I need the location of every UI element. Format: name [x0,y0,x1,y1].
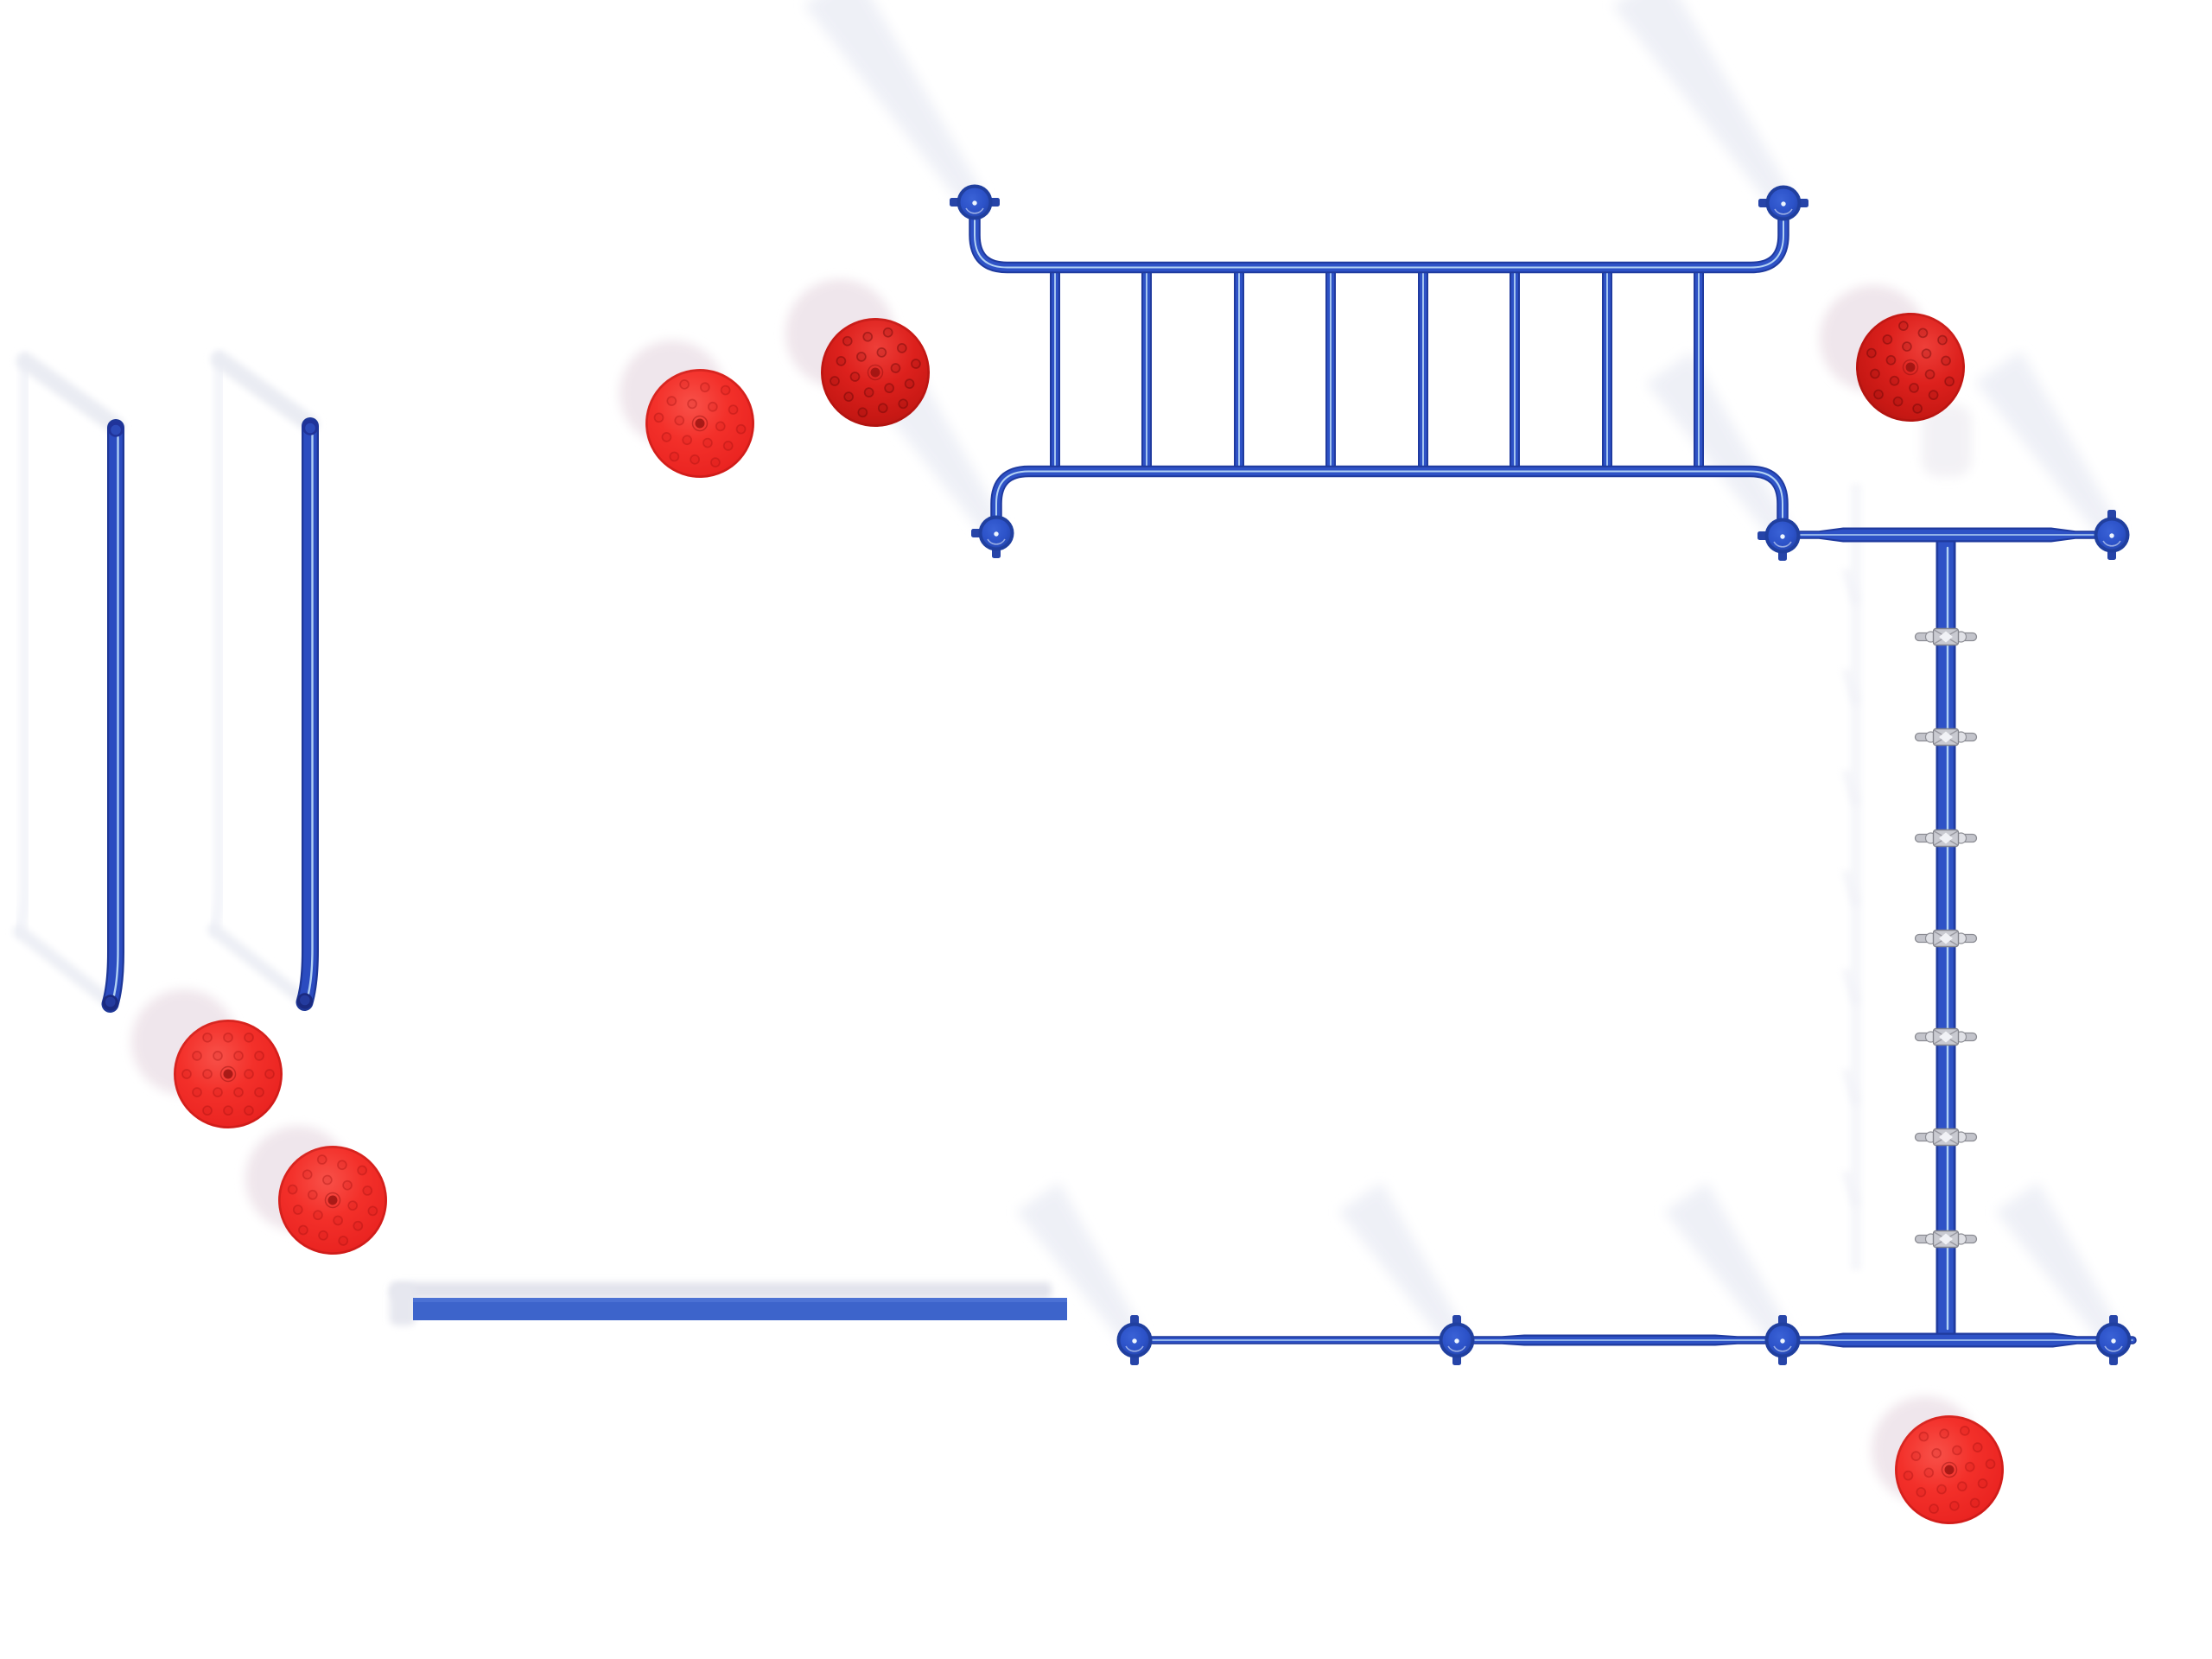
monkey-bar post P3 (bottom-left) [971,529,982,537]
hand grip G3 on climbing pole [1916,835,1932,842]
shadow of bottom rail post P8 [1664,1182,1790,1344]
shadow of monkey-bar post P2 (top-right) [1612,0,1792,208]
monkey bar rung 6 [1510,268,1520,472]
bottom rail post P8 [1778,1315,1787,1325]
monkey bar rung 4 [1325,268,1336,472]
shadow of monkey-bar post P1 (top-left) [804,0,983,207]
stepper pod SP2 (shaded) [810,308,939,436]
shadow of monkey-bar post P3 (bottom-left) [876,372,1005,537]
shadow connector of arch H2 top leg [219,359,310,424]
stepper pod SP3 (shaded) [1840,297,1980,436]
shadow of horizontal bar H2 (right arch, offset ghost line) [214,358,220,930]
stepper pod SP4 [174,1020,283,1128]
shadow streak of grip at y=737 [1841,567,1861,606]
monkey bar rung 8 [1694,268,1704,472]
shadow of stepper pod SP1 [620,340,725,446]
bottom rail segment R1 (post P6 to P7) [1135,1336,1457,1344]
shadow of balance beam B1 [391,1282,1052,1299]
shadow streak of grip at y=1316 [1841,1067,1861,1106]
bottom rail stub right of post P9 [2113,1336,2133,1344]
hand grip G7 on climbing pole [1916,1236,1932,1243]
shadow of stepper pod SP2 [785,279,894,388]
bottom rail post P7 [1452,1315,1461,1325]
shadow of climbing pole V1 (offset ghost line) [1851,484,1861,1270]
stepper pod SP1 [639,362,761,485]
bottom rail post P9 [2109,1315,2118,1325]
top crossbar of climbing pole frame [1783,528,2112,543]
shadow of bottom rail post P9 [1995,1182,2121,1344]
hand grip G2 on climbing pole [1916,734,1932,741]
shadow connector of arch H2 bottom leg [214,930,305,1001]
shadow of bottom rail post P6 [1016,1182,1142,1344]
horizontal bar H2 (right arch) [305,426,311,1002]
monkey bar rung 7 [1602,268,1612,472]
shadow of stepper pod SP6 [1872,1396,1979,1503]
hand grip G4 on climbing pole [1916,935,1932,943]
shadow streak of grip at y=1434 [1841,1169,1861,1208]
climbing pole V1 [1936,541,1956,1334]
stepper pod SP6 [1888,1408,2011,1531]
shadow streak of grip at y=970 [1841,768,1861,807]
horizontal bar H1 (left arch) [111,428,117,1004]
balance beam B1 [413,1298,1067,1320]
shadow streak of grip at y=1200 [1841,967,1861,1006]
shadow streak of grip at y=853 [1841,667,1861,706]
bottom rail post P6 [1130,1315,1139,1325]
shadow of monkey-bar post P4 (bottom-right) [1646,352,1791,540]
shadow of bottom rail post P7 [1338,1182,1465,1344]
shadow connector of arch H1 top leg [25,361,116,426]
soft shade below pod SP3 [1922,404,1972,477]
shadow of stepper pod SP4 [131,989,237,1095]
monkey bar rung 2 [1141,268,1152,472]
bottom rail segment R3 (post P8 to P9) [1783,1333,2113,1348]
stepper pod SP5 [266,1134,399,1267]
shadow of top crossbar post P5 (far right) [1975,351,2120,539]
monkey bar rung 1 [1050,268,1060,472]
monkey bar rung 3 [1234,268,1244,472]
hand grip G5 on climbing pole [1916,1033,1932,1041]
crossbar post P5 (far right) [2107,510,2116,520]
monkey-bar post P2 (top-right) [1758,199,1769,207]
hand grip G1 on climbing pole [1916,633,1932,641]
monkey-bar post P4 / crossbar post (bottom-right of ladder) [1758,531,1768,540]
hand grip G6 on climbing pole [1916,1134,1932,1141]
bottom rail segment R2 (post P7 to P8) [1457,1335,1783,1346]
monkey bar top rail with end elbows [975,216,1783,268]
monkey-bar post P1 (top-left) [950,198,960,207]
shadow of stepper pod SP3 [1820,285,1927,392]
shadow streak of grip at y=1086 [1841,868,1861,907]
monkey bar bottom rail with end elbows [996,472,1783,520]
shadow of horizontal bar H1 (left arch, offset ghost line) [20,359,26,931]
shadow connector of arch H1 bottom leg [20,931,111,1002]
shadow of stepper pod SP5 [245,1126,351,1231]
monkey bar rung 5 [1418,268,1428,472]
